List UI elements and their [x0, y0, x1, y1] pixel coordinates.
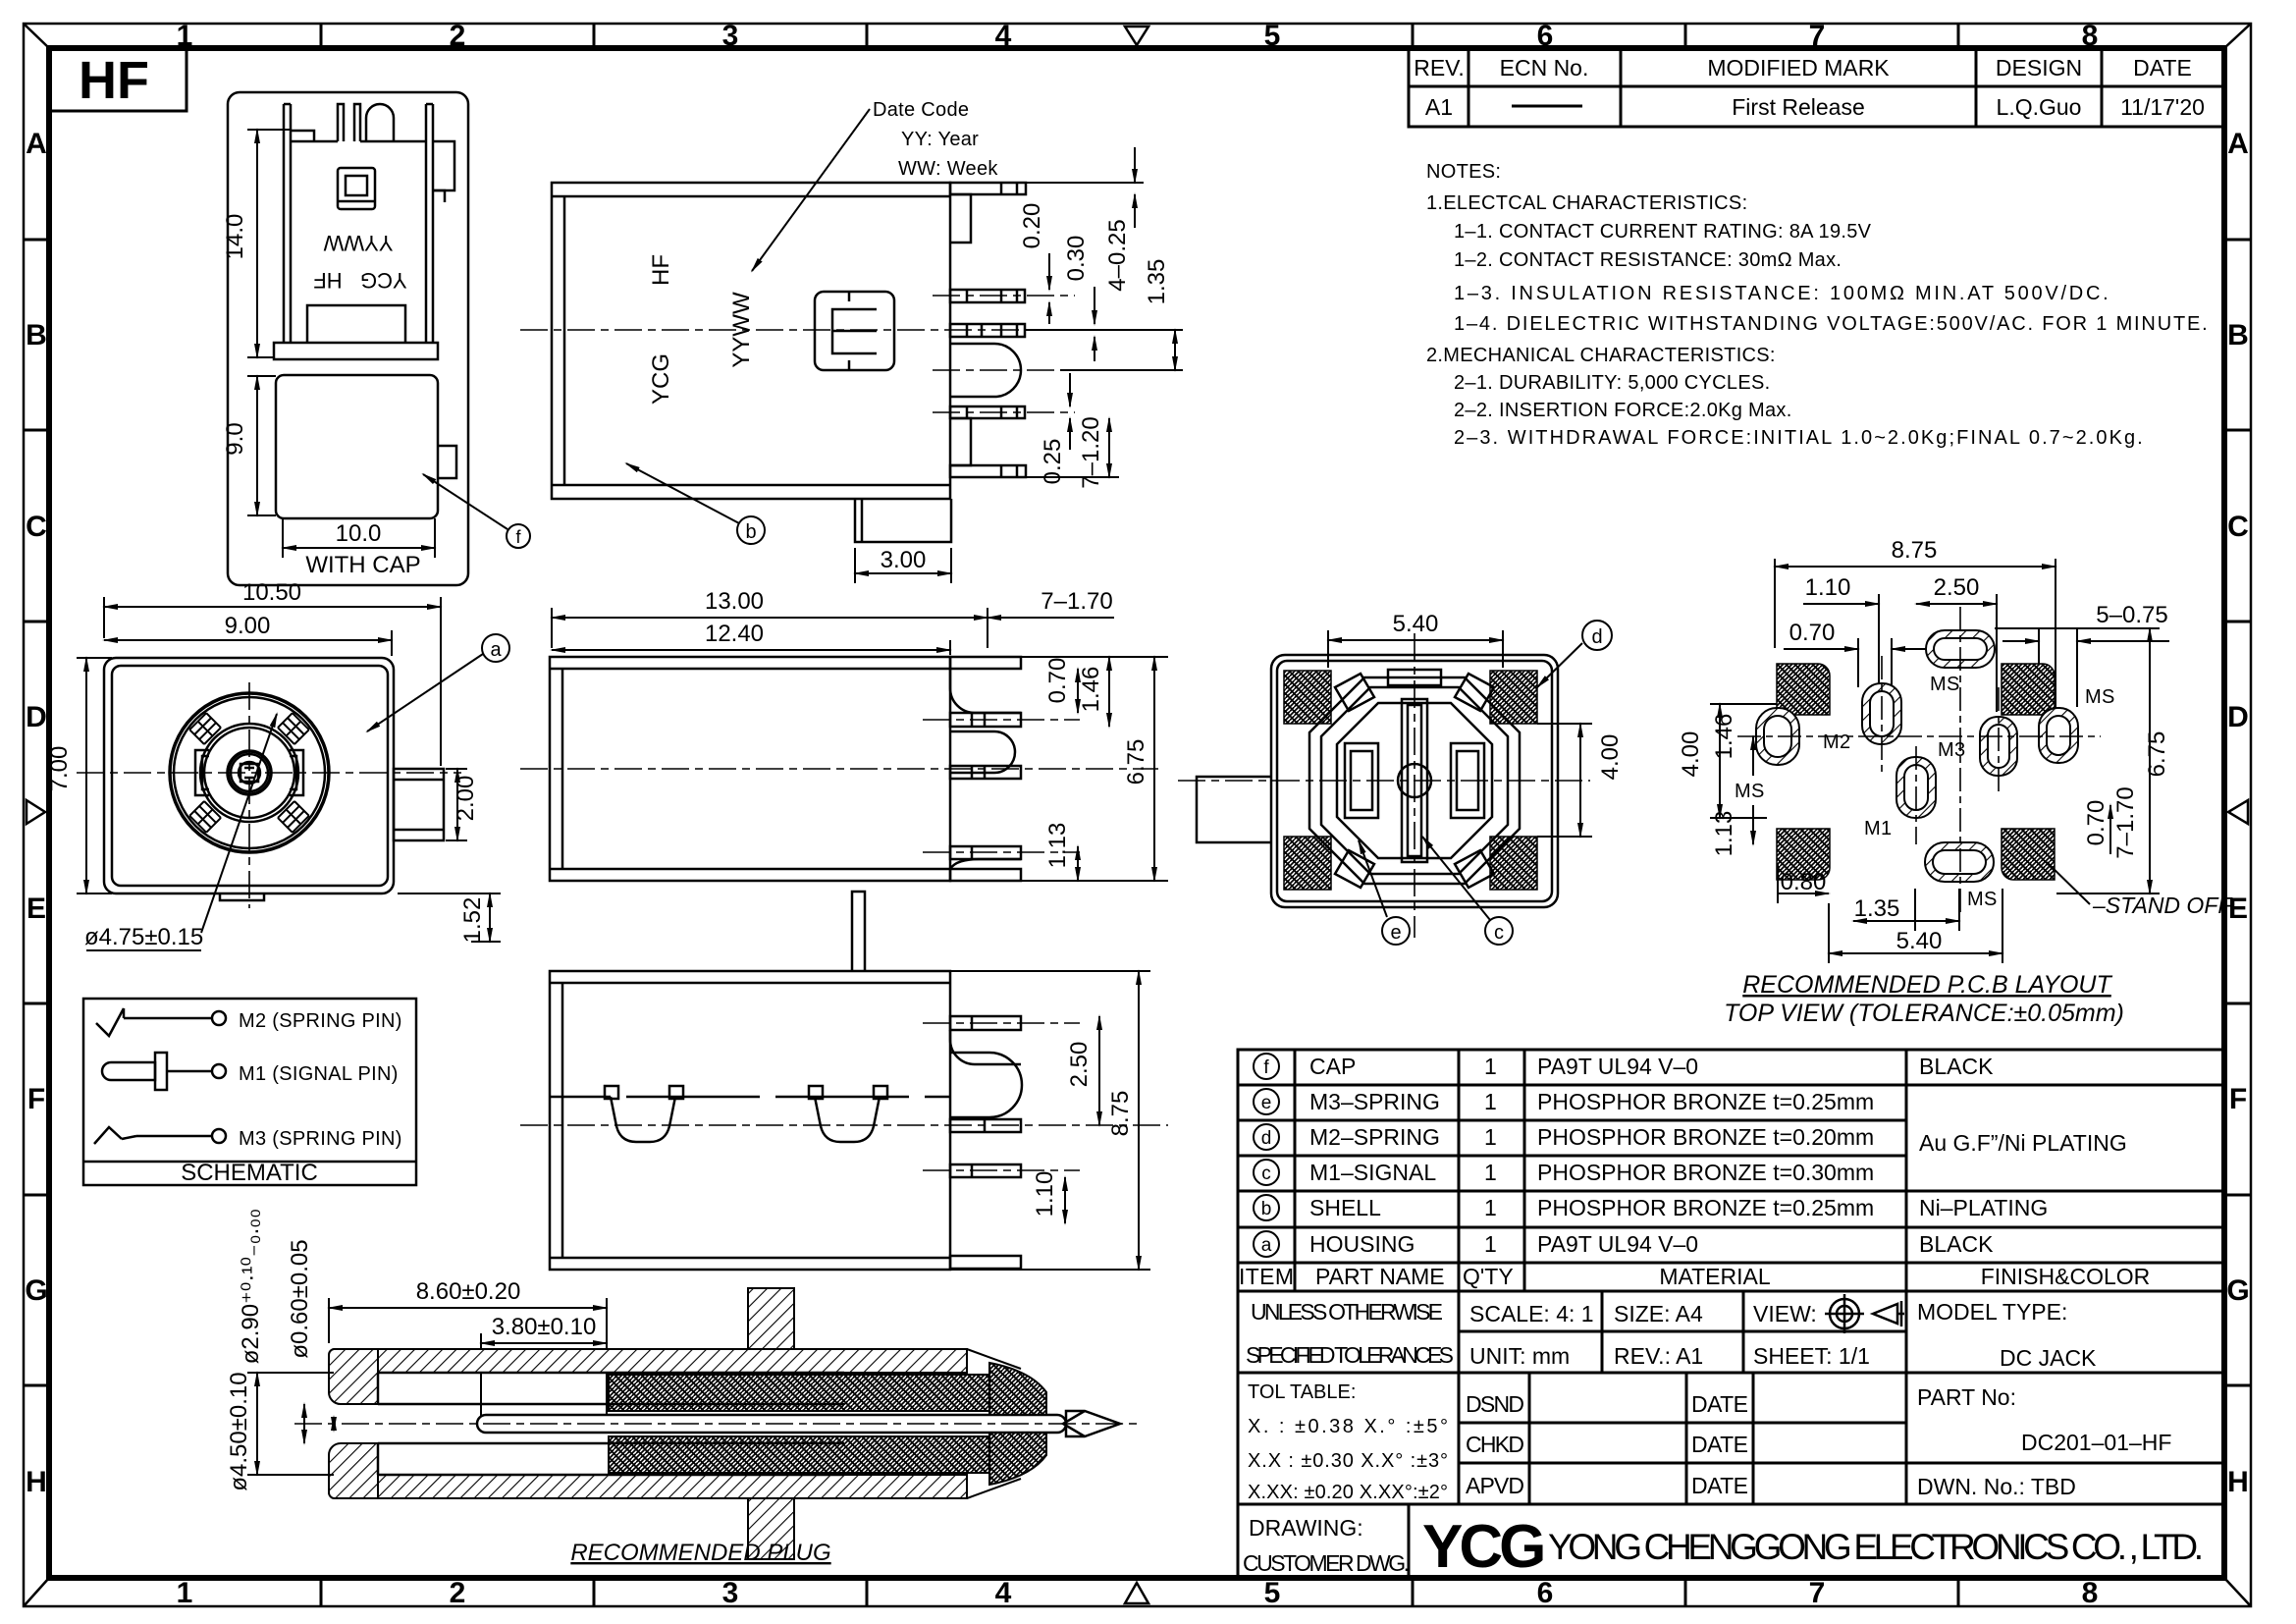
svg-text:M2: M2 — [1823, 731, 1850, 753]
svg-text:e: e — [1390, 922, 1401, 944]
cap block — [276, 375, 438, 518]
dim 0.70 top — [1784, 638, 1926, 687]
svg-text:6.75: 6.75 — [2144, 731, 2170, 778]
svg-text:M2 (SPRING PIN): M2 (SPRING PIN) — [239, 1010, 402, 1032]
svg-text:SCALE: 4: 1: SCALE: 4: 1 — [1469, 1301, 1594, 1326]
svg-text:PHOSPHOR BRONZE t=0.30mm: PHOSPHOR BRONZE t=0.30mm — [1537, 1160, 1874, 1185]
svg-text:0.25: 0.25 — [1040, 439, 1066, 485]
svg-text:1: 1 — [1484, 1195, 1497, 1220]
svg-text:1.46: 1.46 — [1078, 667, 1104, 713]
svg-text:YCG HF: YCG HF — [313, 268, 406, 293]
svg-text:d: d — [1591, 626, 1602, 648]
svg-text:DATE: DATE — [1691, 1473, 1748, 1498]
dim 8.60 — [329, 1298, 607, 1414]
svg-text:X.X : ±0.30 X.X° :±3°: X.X : ±0.30 X.X° :±3° — [1248, 1450, 1448, 1472]
dim 1.10 / 2.50 — [1803, 594, 1997, 712]
svg-text:5: 5 — [1264, 1577, 1281, 1609]
svg-text:CHKD: CHKD — [1466, 1432, 1524, 1457]
svg-text:SIZE: A4: SIZE: A4 — [1614, 1301, 1703, 1326]
notes — [1426, 161, 2208, 449]
svg-text:7.00: 7.00 — [46, 746, 73, 792]
svg-text:7: 7 — [1809, 1577, 1826, 1609]
svg-text:2: 2 — [450, 1577, 466, 1609]
dim 14.0 — [247, 130, 291, 357]
svg-text:ø4.75±0.15: ø4.75±0.15 — [84, 924, 203, 950]
leaf spring wave — [550, 1096, 950, 1099]
leaders d e c — [1359, 621, 1612, 945]
svg-text:c: c — [1261, 1164, 1271, 1184]
svg-text:DATE: DATE — [1691, 1391, 1748, 1417]
svg-text:M3–SPRING: M3–SPRING — [1309, 1089, 1440, 1114]
svg-text:B: B — [26, 319, 47, 352]
svg-text:C: C — [2227, 511, 2249, 543]
svg-text:BLACK: BLACK — [1919, 1231, 1994, 1257]
centerline — [294, 1423, 1139, 1425]
dim 2.00 — [446, 769, 467, 840]
svg-text:X.XX: ±0.20 X.XX°:±2°: X.XX: ±0.20 X.XX°:±2° — [1248, 1482, 1448, 1503]
svg-text:PHOSPHOR BRONZE t=0.25mm: PHOSPHOR BRONZE t=0.25mm — [1537, 1089, 1874, 1114]
spring bends — [950, 669, 1021, 713]
svg-text:G: G — [2226, 1274, 2249, 1307]
svg-text:4.00: 4.00 — [1597, 734, 1624, 781]
svg-text:A: A — [2227, 128, 2249, 160]
centerlines — [520, 296, 1119, 412]
svg-text:PA9T UL94 V–0: PA9T UL94 V–0 — [1537, 1054, 1698, 1079]
small step top-left — [291, 131, 314, 141]
dim 3.80 — [481, 1333, 607, 1419]
svg-text:5.40: 5.40 — [1393, 611, 1439, 637]
svg-text:YONG CHENGGONG ELECTRONICS: YONG CHENGGONG ELECTRONICS CO. , LTD. — [1548, 1527, 2204, 1567]
svg-text:SHEET: 1/1: SHEET: 1/1 — [1753, 1343, 1870, 1369]
svg-text:TOP VIEW (TOLERANCE:±0.05mm): TOP VIEW (TOLERANCE:±0.05mm) — [1724, 1000, 2124, 1027]
svg-text:YYWW: YYWW — [728, 292, 755, 368]
svg-text:MS: MS — [1930, 674, 1960, 695]
svg-text:6: 6 — [1537, 1577, 1554, 1609]
svg-text:2: 2 — [450, 20, 466, 52]
svg-text:1: 1 — [1484, 1054, 1497, 1079]
stand off leader — [2047, 862, 2090, 904]
svg-text:2.50: 2.50 — [1934, 574, 1980, 601]
right flange — [433, 141, 454, 190]
svg-text:14.0: 14.0 — [222, 214, 248, 260]
dim 8.75 — [1775, 559, 2056, 727]
svg-text:9.00: 9.00 — [225, 613, 271, 639]
ECN dash — [1512, 105, 1582, 108]
svg-text:SPECIFIED TOLERANCES: SPECIFIED TOLERANCES — [1246, 1342, 1454, 1368]
pad labels — [1735, 674, 2115, 910]
housing body — [1271, 655, 1558, 907]
svg-text:M3 (SPRING PIN): M3 (SPRING PIN) — [239, 1128, 402, 1150]
dim 4.00 — [1537, 724, 1592, 837]
svg-text:Date Code: Date Code — [873, 99, 969, 121]
svg-text:HOUSING: HOUSING — [1309, 1231, 1415, 1257]
side walls — [283, 104, 286, 343]
svg-text:9.0: 9.0 — [222, 422, 248, 455]
svg-text:PHOSPHOR BRONZE t=0.20mm: PHOSPHOR BRONZE t=0.20mm — [1537, 1124, 1874, 1150]
curved hook — [366, 104, 394, 141]
svg-text:WITH CAP: WITH CAP — [305, 552, 420, 578]
view projection symbols — [1825, 1294, 1904, 1333]
svg-text:C: C — [26, 511, 47, 543]
svg-text:REV.: A1: REV.: A1 — [1614, 1343, 1703, 1369]
svg-text:a: a — [1261, 1235, 1272, 1256]
HF sheet code box — [49, 48, 187, 111]
svg-text:F: F — [2229, 1083, 2247, 1115]
BOM table — [1238, 1050, 2224, 1291]
svg-text:ECN No.: ECN No. — [1500, 55, 1589, 81]
svg-text:3.00: 3.00 — [881, 547, 927, 573]
solder pads — [1756, 630, 2078, 882]
svg-text:2.50: 2.50 — [1066, 1042, 1093, 1088]
svg-text:11/17'20: 11/17'20 — [2120, 94, 2205, 120]
dim 10.50 — [104, 597, 441, 766]
svg-text:0.80: 0.80 — [1781, 869, 1827, 895]
svg-text:APVD: APVD — [1466, 1473, 1524, 1498]
svg-text:PART NAME: PART NAME — [1315, 1264, 1445, 1289]
svg-text:MS: MS — [1735, 781, 1765, 802]
top interior edge — [291, 140, 338, 143]
BOM item circled letters — [1254, 1054, 1279, 1257]
date code note — [873, 99, 998, 180]
svg-text:DC JACK: DC JACK — [2000, 1345, 2097, 1371]
svg-text:E: E — [27, 893, 46, 925]
svg-text:HF: HF — [79, 51, 149, 110]
svg-text:MODEL TYPE:: MODEL TYPE: — [1917, 1299, 2067, 1325]
svg-text:H: H — [2227, 1466, 2249, 1498]
svg-text:G: G — [25, 1274, 47, 1307]
dim 5-0.75 — [2002, 628, 2169, 707]
svg-text:M1 (SIGNAL PIN): M1 (SIGNAL PIN) — [239, 1063, 399, 1085]
svg-text:SCHEMATIC: SCHEMATIC — [181, 1160, 318, 1186]
top small latch — [1388, 670, 1441, 685]
dim 3.00 — [855, 548, 951, 583]
leader a — [367, 634, 509, 731]
revision table — [1409, 48, 2224, 127]
svg-text:1.10: 1.10 — [1805, 574, 1851, 601]
svg-text:ø2.90⁺⁰·¹⁰₋₀.₀₀: ø2.90⁺⁰·¹⁰₋₀.₀₀ — [238, 1209, 264, 1364]
svg-text:8: 8 — [2082, 1577, 2099, 1609]
dim 1.52 — [398, 893, 501, 942]
svg-text:YY: Year: YY: Year — [901, 129, 979, 150]
svg-text:e: e — [1261, 1093, 1272, 1113]
svg-text:PART No:: PART No: — [1917, 1384, 2016, 1410]
svg-text:1: 1 — [1484, 1231, 1497, 1257]
dim 13.00 / 7-1.70 — [552, 608, 1114, 648]
svg-text:12.40: 12.40 — [705, 621, 764, 647]
center lines — [77, 682, 461, 908]
stand-off squares — [1777, 664, 2055, 880]
svg-text:UNLESS OTHERWISE: UNLESS OTHERWISE — [1251, 1299, 1443, 1325]
svg-text:1.35: 1.35 — [1854, 895, 1900, 922]
svg-text:Q'TY: Q'TY — [1463, 1264, 1514, 1289]
svg-text:7–1.70: 7–1.70 — [1041, 588, 1112, 615]
plug body — [329, 1288, 1046, 1559]
marking text (mirrored) — [313, 231, 406, 293]
svg-text:YCG: YCG — [1422, 1513, 1543, 1581]
svg-text:HF: HF — [648, 254, 674, 286]
svg-text:H: H — [26, 1466, 47, 1498]
svg-text:Ni–PLATING: Ni–PLATING — [1919, 1195, 2048, 1220]
svg-text:REV.: REV. — [1414, 55, 1465, 81]
right pins — [950, 1016, 1021, 1030]
svg-text:f: f — [1263, 1057, 1269, 1078]
svg-text:10.50: 10.50 — [242, 579, 301, 606]
left dims — [247, 1373, 334, 1475]
svg-text:10.0: 10.0 — [336, 520, 382, 547]
center slot structure — [1402, 699, 1427, 862]
dim 5.40 — [1328, 630, 1503, 668]
centerlines — [1737, 607, 2101, 913]
svg-text:ø0.60±0.05: ø0.60±0.05 — [287, 1239, 313, 1358]
svg-text:DESIGN: DESIGN — [1996, 55, 2082, 81]
center latch detail — [815, 292, 894, 370]
leader dia 4.75 — [86, 714, 277, 950]
svg-text:1.13: 1.13 — [1711, 811, 1737, 857]
svg-text:b: b — [1261, 1199, 1272, 1219]
svg-text:2–2. INSERTION FORCE:2.0Kg: 2–2. INSERTION FORCE:2.0Kg Max. — [1454, 400, 1792, 421]
svg-text:First Release: First Release — [1732, 94, 1864, 120]
centerlines — [1178, 780, 1590, 782]
svg-text:3: 3 — [722, 20, 739, 52]
svg-text:Au G.F”/Ni PLATING: Au G.F”/Ni PLATING — [1919, 1130, 2127, 1156]
svg-text:1.13: 1.13 — [1044, 823, 1071, 869]
svg-text:1.10: 1.10 — [1032, 1171, 1058, 1218]
svg-text:RECOMMENDED PLUG: RECOMMENDED PLUG — [570, 1540, 830, 1566]
svg-text:M3: M3 — [1938, 739, 1965, 761]
svg-text:6.75: 6.75 — [1123, 739, 1149, 785]
corner lugs — [1335, 674, 1374, 711]
svg-text:7–1.20: 7–1.20 — [1078, 416, 1104, 488]
housing outline — [104, 658, 444, 900]
svg-text:SHELL: SHELL — [1309, 1195, 1381, 1220]
right pins — [950, 183, 1026, 194]
dim 10.0 — [283, 518, 435, 558]
svg-text:0.30: 0.30 — [1063, 236, 1090, 282]
svg-text:5–0.75: 5–0.75 — [2096, 602, 2167, 628]
dim 9.0 — [247, 376, 276, 515]
svg-text:1.52: 1.52 — [459, 897, 486, 944]
svg-text:4.00: 4.00 — [1678, 731, 1704, 778]
dims left — [1710, 704, 1777, 844]
pin tip — [1066, 1411, 1120, 1436]
svg-text:M1–SIGNAL: M1–SIGNAL — [1309, 1160, 1436, 1185]
pin dims right — [1025, 147, 1183, 477]
body — [550, 657, 1021, 881]
spring U cutout — [950, 344, 1021, 397]
svg-text:A1: A1 — [1425, 94, 1453, 120]
svg-text:2.00: 2.00 — [453, 776, 479, 822]
svg-text:4: 4 — [995, 20, 1012, 52]
svg-text:8.75: 8.75 — [1107, 1091, 1134, 1137]
svg-text:d: d — [1261, 1128, 1272, 1149]
svg-text:A: A — [26, 128, 47, 160]
dims bottom — [1778, 864, 2002, 963]
dims right — [1995, 628, 2160, 893]
svg-text:1.ELECTCAL CHARACTERISTICS:: 1.ELECTCAL CHARACTERISTICS: — [1426, 192, 1747, 214]
title block — [1238, 1291, 2224, 1578]
svg-text:B: B — [2227, 319, 2249, 352]
svg-text:FINISH&COLOR: FINISH&COLOR — [1981, 1264, 2151, 1289]
svg-text:UNIT: mm: UNIT: mm — [1469, 1343, 1570, 1369]
svg-text:5.40: 5.40 — [1896, 928, 1943, 954]
cap right nub — [438, 446, 456, 478]
middle pins — [338, 104, 344, 141]
svg-text:RECOMMENDED P.C.B LAYOUT: RECOMMENDED P.C.B LAYOUT — [1742, 971, 2112, 999]
svg-text:YCG: YCG — [648, 353, 674, 405]
svg-text:NOTES:: NOTES: — [1426, 161, 1501, 183]
svg-text:PA9T UL94 V–0: PA9T UL94 V–0 — [1537, 1231, 1698, 1257]
svg-text:VIEW:: VIEW: — [1753, 1301, 1817, 1326]
svg-text:0.70: 0.70 — [2083, 800, 2109, 846]
svg-text:DRAWING:: DRAWING: — [1249, 1515, 1363, 1541]
pins — [950, 657, 1021, 669]
svg-text:BLACK: BLACK — [1919, 1054, 1994, 1079]
svg-text:CAP: CAP — [1309, 1054, 1356, 1079]
left cable — [1197, 777, 1271, 842]
latch hole — [338, 168, 375, 209]
svg-text:1: 1 — [1484, 1124, 1497, 1150]
M2 spring pin symbol — [96, 1008, 226, 1036]
svg-text:DATE: DATE — [1691, 1432, 1748, 1457]
svg-text:DC201–01–HF: DC201–01–HF — [2021, 1430, 2171, 1455]
svg-text:b: b — [745, 521, 756, 543]
svg-text:D: D — [2227, 701, 2249, 733]
svg-text:MODIFIED MARK: MODIFIED MARK — [1707, 55, 1890, 81]
svg-text:0.70: 0.70 — [1789, 620, 1836, 646]
svg-text:5: 5 — [1264, 20, 1281, 52]
svg-text:1: 1 — [177, 1577, 193, 1609]
svg-text:1–1. CONTACT CURRENT RATING: 1–1. CONTACT CURRENT RATING: 8A 19.5V — [1454, 221, 1872, 243]
dim 7.00 — [77, 658, 112, 893]
svg-text:1.46: 1.46 — [1711, 714, 1737, 760]
serration pads — [189, 713, 309, 833]
svg-text:L.Q.Guo: L.Q.Guo — [1997, 94, 2082, 120]
pedestal step — [307, 305, 405, 343]
svg-text:0.20: 0.20 — [1019, 203, 1045, 249]
dims — [950, 971, 1150, 1270]
svg-text:1.35: 1.35 — [1144, 259, 1170, 305]
svg-text:ITEM: ITEM — [1239, 1264, 1294, 1289]
svg-text:8.75: 8.75 — [1892, 537, 1938, 564]
octagon shell — [1309, 670, 1520, 888]
svg-text:D: D — [26, 701, 47, 733]
svg-text:F: F — [27, 1083, 45, 1115]
svg-text:3.80±0.10: 3.80±0.10 — [492, 1314, 597, 1340]
svg-text:2.MECHANICAL CHARACTERISTICS:: 2.MECHANICAL CHARACTERISTICS: — [1426, 345, 1776, 366]
dims right — [950, 657, 1168, 881]
svg-text:DSND: DSND — [1466, 1391, 1524, 1417]
centerline — [520, 768, 1158, 770]
svg-text:DWN. No.: TBD: DWN. No.: TBD — [1917, 1474, 2076, 1499]
svg-text:DATE: DATE — [2133, 55, 2192, 81]
svg-text:M2–SPRING: M2–SPRING — [1309, 1124, 1440, 1150]
svg-text:MS: MS — [2085, 686, 2115, 708]
side brackets — [1345, 743, 1378, 818]
svg-text:7–1.70: 7–1.70 — [2112, 786, 2139, 858]
svg-text:8.60±0.20: 8.60±0.20 — [416, 1278, 521, 1305]
concentric rings — [170, 693, 329, 852]
dim 9.00 — [104, 630, 392, 656]
svg-text:1–3. INSULATION RESISTANCE:: 1–3. INSULATION RESISTANCE: 100MΩ MIN.AT… — [1454, 283, 2109, 304]
svg-text:MS: MS — [1967, 889, 1998, 910]
svg-text:YYWW: YYWW — [323, 231, 393, 255]
svg-text:4–0.25: 4–0.25 — [1104, 219, 1131, 291]
svg-text:a: a — [490, 639, 502, 661]
svg-text:0.70: 0.70 — [1044, 658, 1071, 704]
svg-text:2–1. DURABILITY: 5,000 CYCL: 2–1. DURABILITY: 5,000 CYCLES. — [1454, 372, 1771, 394]
leader f — [423, 474, 530, 548]
M1 signal pin symbol — [102, 1053, 226, 1090]
svg-text:1: 1 — [1484, 1089, 1497, 1114]
leader b — [626, 463, 765, 544]
svg-text:13.00: 13.00 — [705, 588, 764, 615]
svg-text:c: c — [1494, 922, 1504, 944]
svg-text:ø4.50±0.10: ø4.50±0.10 — [226, 1372, 252, 1490]
svg-text:WW: Week: WW: Week — [898, 158, 998, 180]
rotated marking text — [648, 254, 755, 405]
corner stand-offs (weave) — [1284, 671, 1537, 890]
svg-text:CUSTOMER DWG.: CUSTOMER DWG. — [1243, 1550, 1410, 1576]
svg-text:4: 4 — [995, 1577, 1012, 1609]
svg-text:2–3. WITHDRAWAL FORCE:INITIA: 2–3. WITHDRAWAL FORCE:INITIAL 1.0~2.0Kg;… — [1454, 427, 2143, 449]
svg-text:1: 1 — [1484, 1160, 1497, 1185]
svg-text:1–2. CONTACT RESISTANCE: 30: 1–2. CONTACT RESISTANCE: 30mΩ Max. — [1454, 249, 1842, 271]
svg-text:MATERIAL: MATERIAL — [1659, 1264, 1771, 1289]
bottom tab — [855, 499, 951, 542]
svg-text:PHOSPHOR BRONZE t=0.25mm: PHOSPHOR BRONZE t=0.25mm — [1537, 1195, 1874, 1220]
svg-text:TOL TABLE:: TOL TABLE: — [1248, 1381, 1356, 1403]
svg-text:–STAND OFF: –STAND OFF — [2092, 893, 2233, 918]
svg-text:M1: M1 — [1864, 818, 1892, 839]
flange plate — [274, 343, 438, 359]
svg-text:3: 3 — [722, 1577, 739, 1609]
M3 spring pin symbol — [94, 1127, 226, 1144]
dim 12.40 — [552, 640, 950, 655]
